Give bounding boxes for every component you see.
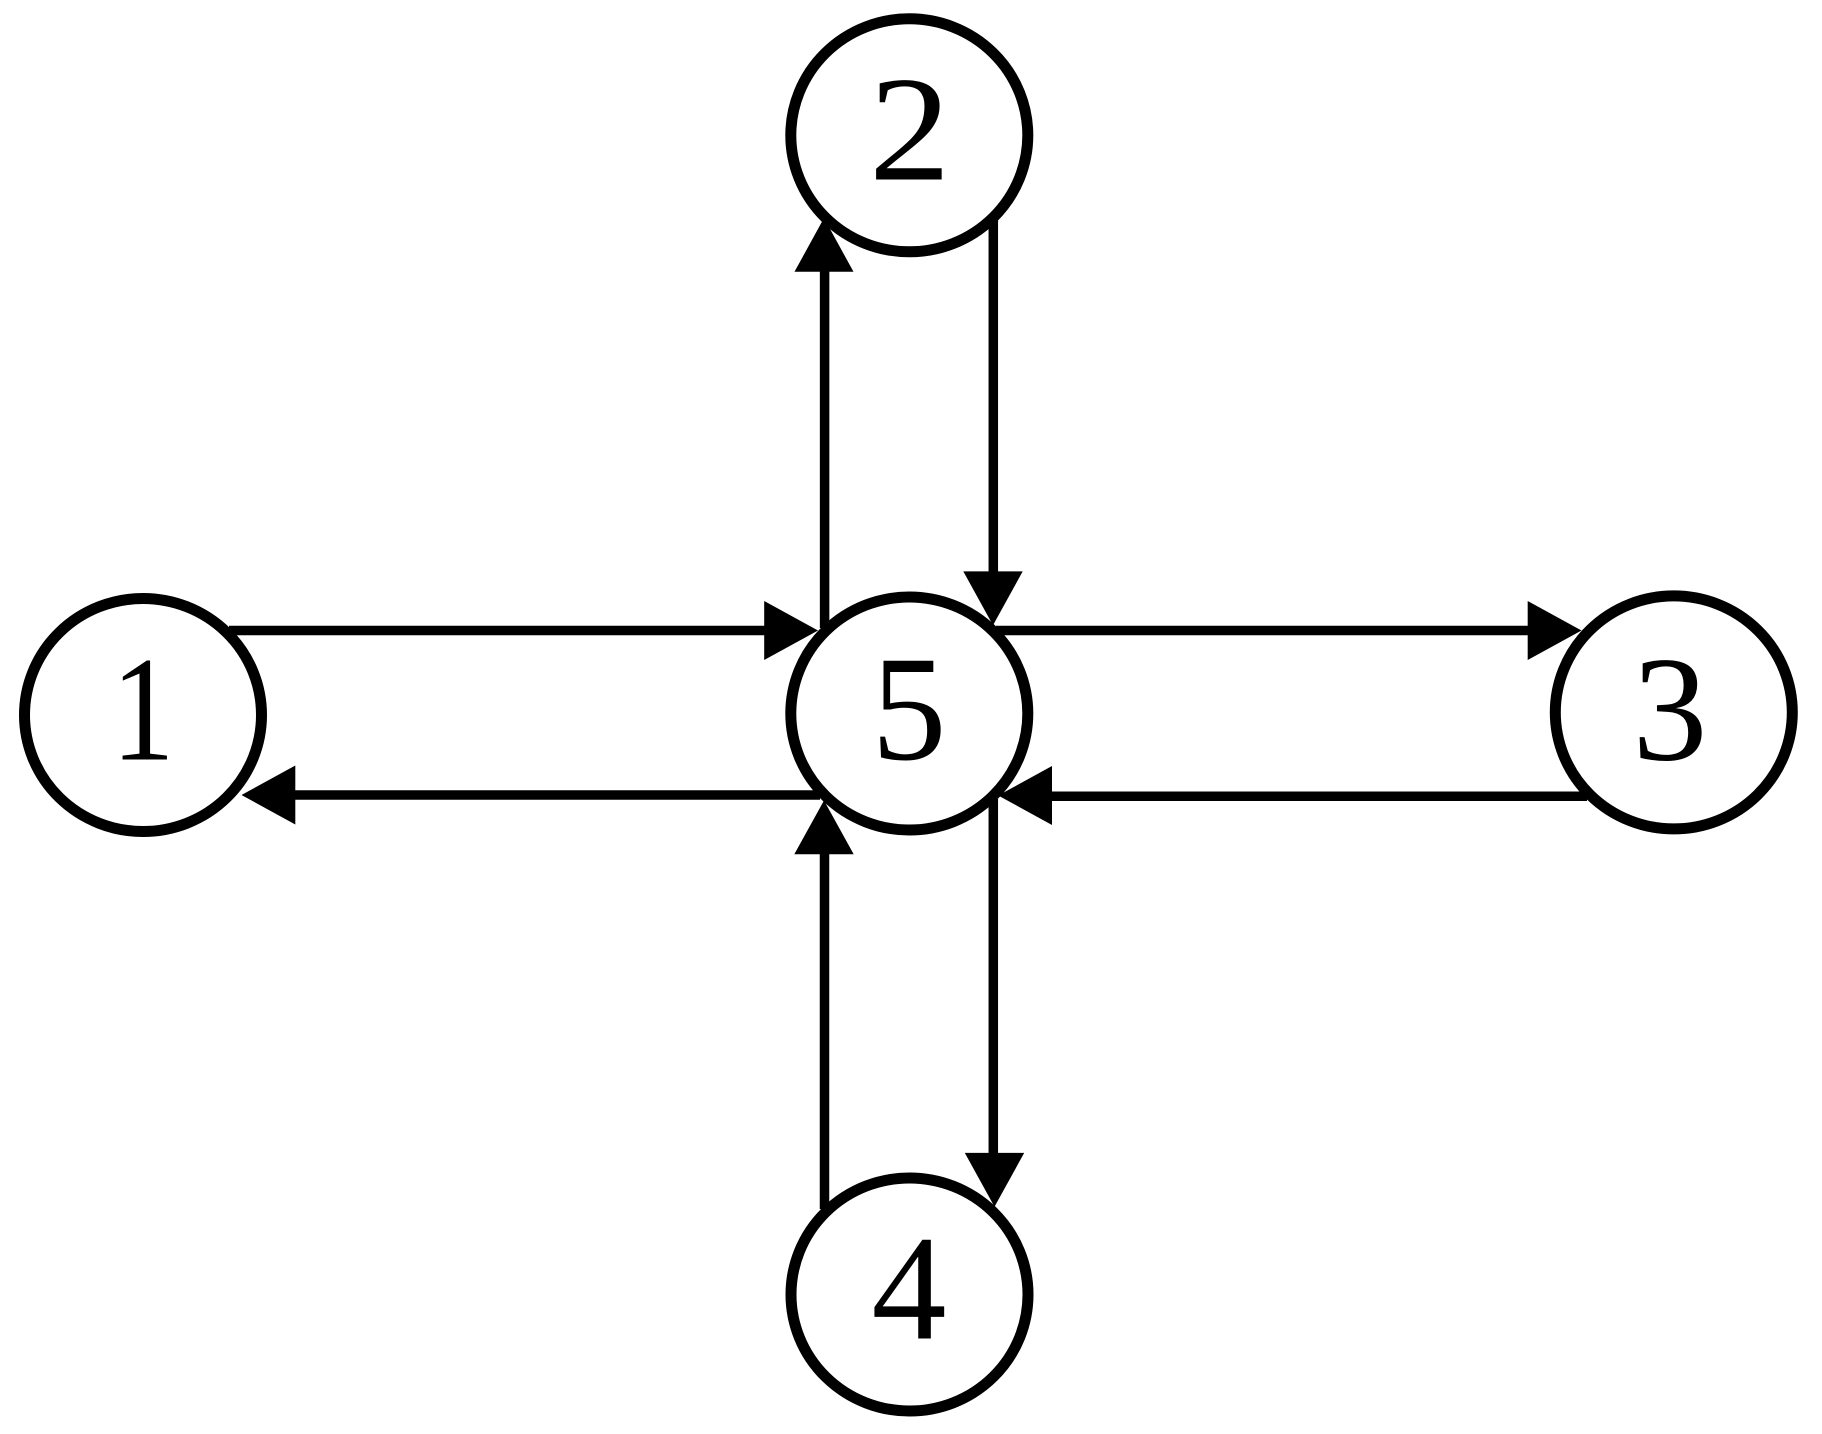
svg-text:1: 1 xyxy=(111,626,174,792)
arrowhead edge 5 to 2 xyxy=(795,218,854,272)
node 3 circle xyxy=(1555,596,1792,829)
svg-text:5: 5 xyxy=(872,626,947,792)
arrowhead edge 1 to 5 xyxy=(764,601,818,660)
node 5 circle xyxy=(791,597,1028,830)
svg-text:3: 3 xyxy=(1633,627,1708,793)
wire edge 3 to 5 (bottom line) xyxy=(1052,792,1587,802)
arrowhead edge 3 to 5 xyxy=(998,766,1052,825)
wire edge 5 to 2 (left vertical line) xyxy=(820,271,830,628)
svg-text:2: 2 xyxy=(869,46,951,212)
wire edge 2 to 5 (right vertical line) xyxy=(989,220,999,572)
arrowhead edge 5 to 1 xyxy=(242,766,296,825)
arrowhead edge 2 to 5 xyxy=(963,571,1022,625)
wire edge 5 to 4 (right vertical line) xyxy=(989,799,999,1153)
svg-text:4: 4 xyxy=(872,1206,947,1372)
wire edge 1 to 5 (top line) xyxy=(229,626,766,636)
wire edge 4 to 5 (left vertical line) xyxy=(820,853,830,1209)
node 2 circle xyxy=(791,19,1028,252)
node 4 circle xyxy=(791,1178,1028,1411)
wire edge 5 to 3 (top line) xyxy=(996,626,1530,636)
arrowhead edge 4 to 5 xyxy=(794,801,853,855)
node 1 circle xyxy=(25,599,262,832)
arrowhead edge 5 to 4 xyxy=(965,1153,1024,1207)
wire edge 5 to 1 (bottom line) xyxy=(288,790,820,800)
arrowhead edge 5 to 3 xyxy=(1528,601,1582,660)
